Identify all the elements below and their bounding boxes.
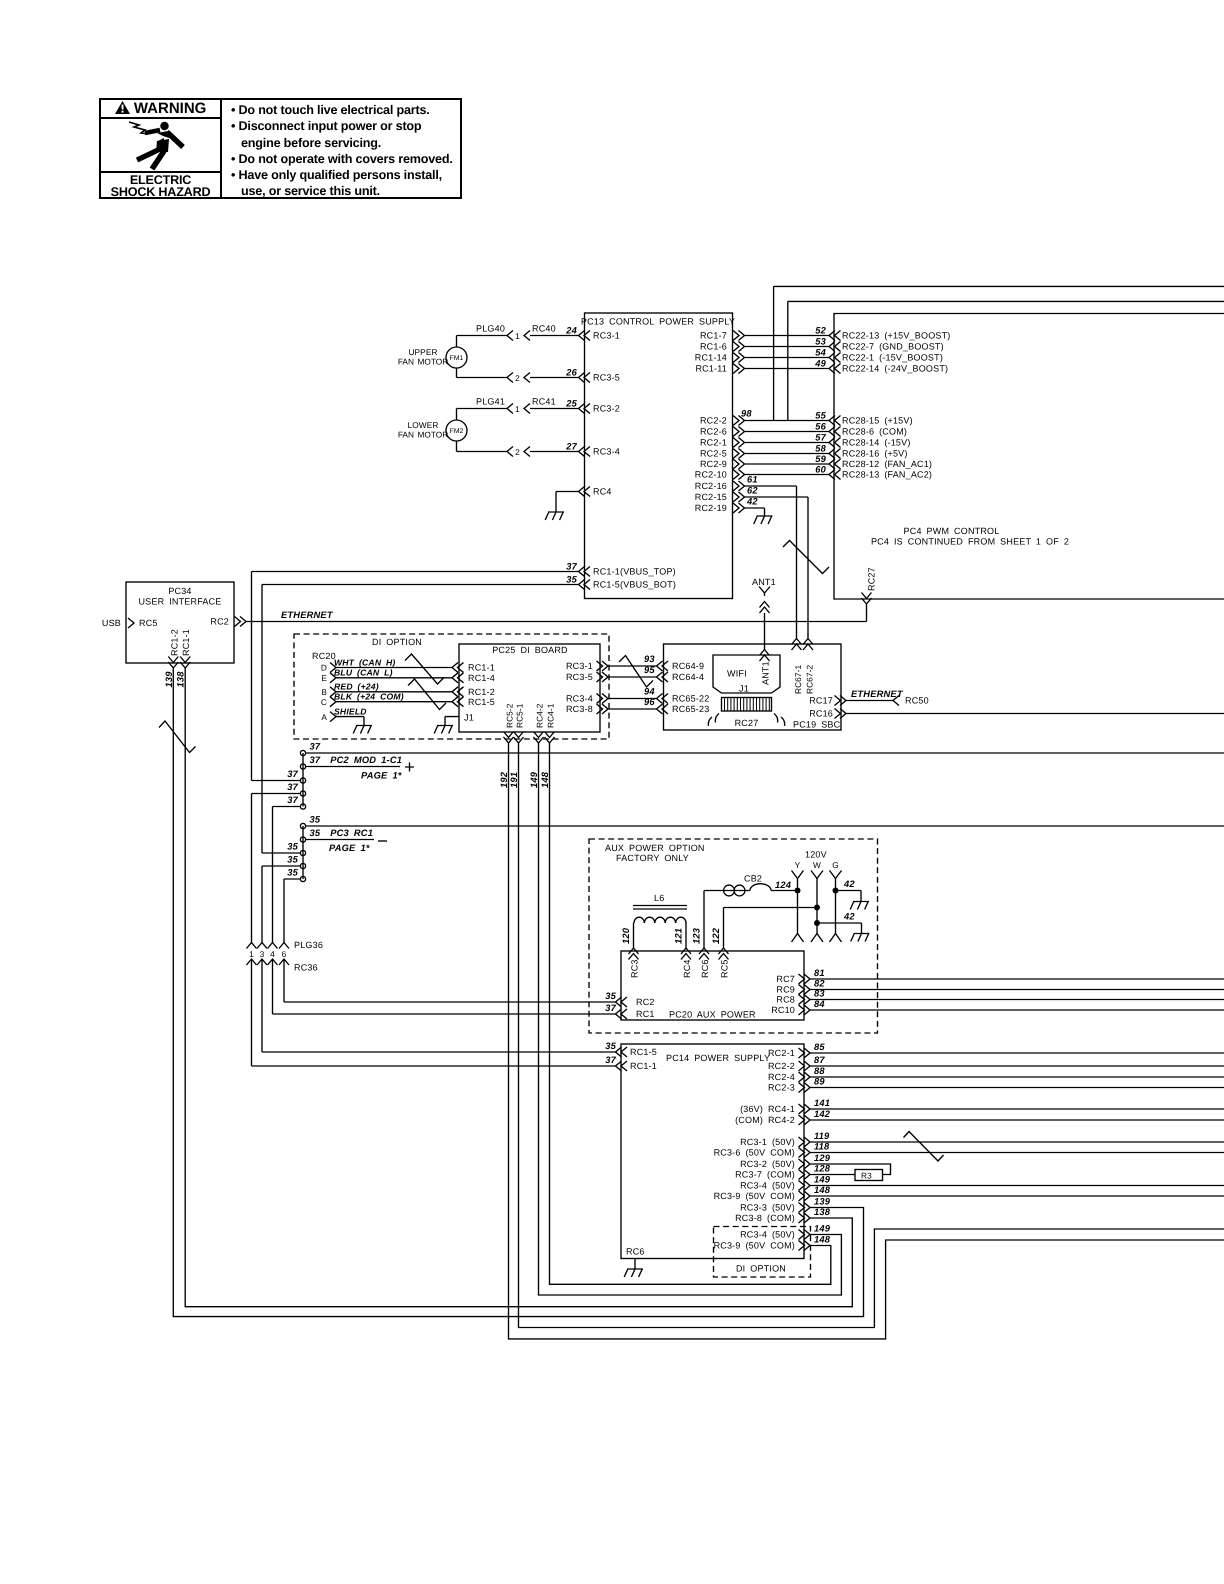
wire 58 <box>745 453 830 455</box>
svg-text:58: 58 <box>815 443 826 453</box>
svg-text:RC22-1 (-15V_BOOST): RC22-1 (-15V_BOOST) <box>842 353 943 363</box>
connector PLG36 pin 1 <box>247 943 257 949</box>
svg-text:RC50: RC50 <box>905 696 929 706</box>
svg-text:DI OPTION: DI OPTION <box>736 1264 786 1274</box>
svg-text:RC3-9 (50V COM): RC3-9 (50V COM) <box>714 1241 795 1251</box>
pin RC4-2 (PC14) 142 <box>799 1115 811 1125</box>
wire 83 off-sheet <box>810 999 1224 1001</box>
svg-text:SHIELD: SHIELD <box>334 706 367 716</box>
wire 120V W vertical <box>816 879 818 934</box>
svg-text:FM2: FM2 <box>450 428 464 435</box>
pin RC5-2 (PC25) <box>504 732 514 744</box>
svg-text:RC2-1: RC2-1 <box>700 438 727 448</box>
wire 54 <box>745 357 830 359</box>
pin RC10 (PC20) <box>799 1005 811 1015</box>
svg-text:W: W <box>813 860 821 870</box>
pin RC1-2 (PC34) <box>168 657 178 669</box>
svg-text:RC64-9: RC64-9 <box>672 661 704 671</box>
svg-text:42: 42 <box>843 879 855 889</box>
wire 148 RC4-1 to DI RC3-9 <box>550 743 831 1284</box>
svg-text:141: 141 <box>814 1098 830 1108</box>
antenna ANT1 symbol <box>759 587 770 597</box>
wire CB2 row <box>704 890 798 892</box>
svg-text:FAN MOTOR: FAN MOTOR <box>398 357 448 367</box>
svg-text:37 PC2 MOD 1-C1: 37 PC2 MOD 1-C1 <box>310 755 403 765</box>
connector J1 comb RC27 <box>722 698 772 712</box>
crossover mark 93/95 <box>619 656 653 688</box>
svg-text:BLU (CAN L): BLU (CAN L) <box>334 668 393 678</box>
wire J1 to ground <box>445 717 459 726</box>
svg-text:PC4 IS CONTINUED FROM SHEET 1: PC4 IS CONTINUED FROM SHEET 1 OF 2 <box>871 537 1069 547</box>
svg-text:PC19 SBC: PC19 SBC <box>793 720 841 730</box>
pin RC4 (PC20 top) <box>681 948 691 960</box>
pin RC2-15 (PC13) <box>733 492 745 502</box>
svg-text:L6: L6 <box>654 893 664 903</box>
pin RC3-4 (PC25) <box>597 694 609 704</box>
svg-text:35: 35 <box>287 868 298 878</box>
pin RC27 (PC4) <box>862 593 872 605</box>
pin RC5 USB (PC34) <box>128 618 134 628</box>
svg-text:RC3: RC3 <box>630 959 640 978</box>
pin RC3 (PC20 top) <box>629 948 639 960</box>
wire RC20-D <box>336 667 452 669</box>
wire RC36-3 to PC14 RC1-5 <box>262 959 616 1052</box>
pin RC50 <box>893 696 899 706</box>
svg-text:35: 35 <box>605 1041 616 1051</box>
wire RC16 off-sheet <box>846 713 1224 715</box>
svg-text:PAGE 1*: PAGE 1* <box>361 771 402 781</box>
svg-text:RC2: RC2 <box>210 617 229 627</box>
svg-text:98: 98 <box>741 409 752 419</box>
pin RC3-9 (PC14 DI) 148 <box>799 1241 811 1251</box>
warning bullet text <box>231 102 457 200</box>
wire CB2 left to RC6 <box>703 891 705 949</box>
svg-text:PC14 POWER SUPPLY: PC14 POWER SUPPLY <box>666 1053 770 1063</box>
wire 53 <box>745 346 830 348</box>
pin RC3-1 (PC13) <box>579 331 591 341</box>
wire RC36-6 to PC20 RC2 <box>284 959 616 1002</box>
connector PLG36 pin 6 <box>279 943 289 949</box>
svg-text:RC36: RC36 <box>294 963 318 973</box>
junction Y-124 <box>795 888 801 894</box>
svg-text:129: 129 <box>814 1153 831 1163</box>
connector 120V G upper <box>830 871 842 879</box>
svg-text:42: 42 <box>843 912 855 922</box>
svg-text:RC27: RC27 <box>735 718 759 728</box>
svg-text:35: 35 <box>287 855 298 865</box>
wire 35 off-sheet <box>306 825 1224 827</box>
svg-text:RC2-2: RC2-2 <box>768 1061 795 1071</box>
ground RC6 <box>624 1269 643 1278</box>
svg-text:122: 122 <box>711 927 721 944</box>
svg-text:142: 142 <box>814 1109 831 1119</box>
svg-text:2: 2 <box>515 447 520 457</box>
pin RC1-5 (PC25) <box>452 697 464 707</box>
svg-text:6: 6 <box>282 949 287 959</box>
svg-text:59: 59 <box>815 454 826 464</box>
svg-text:1: 1 <box>515 331 520 341</box>
pin RC67-2 (PC19) <box>803 639 813 651</box>
svg-text:RC28-6 (COM): RC28-6 (COM) <box>842 427 907 437</box>
wire 37 tap3 to VBUS_TOP <box>252 780 301 782</box>
pin RC28-15 (PC4) <box>829 416 841 426</box>
svg-text:RC22-7 (GND_BOOST): RC22-7 (GND_BOOST) <box>842 342 944 352</box>
junction W-42 <box>814 920 820 926</box>
wire 120V Y vertical <box>797 879 799 934</box>
wire G to ground 42a <box>836 891 862 902</box>
wire 60 <box>745 474 830 476</box>
svg-text:RED (+24): RED (+24) <box>334 682 379 692</box>
node 37 tap1 <box>300 750 305 755</box>
svg-text:RC6: RC6 <box>626 1247 645 1257</box>
svg-text:PAGE 1*: PAGE 1* <box>329 843 370 853</box>
wire FM2 pin1 row <box>457 409 579 421</box>
bus 35 tap column <box>302 826 304 879</box>
svg-text:RC5: RC5 <box>720 959 730 978</box>
crossover mark RC67 pair <box>783 541 829 574</box>
wire RC20-C <box>336 701 452 703</box>
svg-text:35: 35 <box>287 842 298 852</box>
svg-text:37: 37 <box>605 1003 616 1013</box>
svg-text:RC2-5: RC2-5 <box>700 449 727 459</box>
connector 120V W upper <box>811 871 823 879</box>
DI option boundary lower (dashed) <box>714 1227 811 1278</box>
svg-text:37: 37 <box>310 742 321 752</box>
svg-text:USER INTERFACE: USER INTERFACE <box>138 597 221 607</box>
wire 61 RC2-16 to RC67-1 <box>745 486 797 639</box>
svg-text:25: 25 <box>565 398 577 408</box>
svg-text:120V: 120V <box>805 850 827 860</box>
svg-text:149: 149 <box>529 771 539 788</box>
svg-text:138: 138 <box>176 671 186 688</box>
svg-text:RC2-6: RC2-6 <box>700 427 727 437</box>
svg-text:RC67-2: RC67-2 <box>805 665 815 694</box>
wire 85 off-sheet <box>810 1052 1224 1054</box>
plug PLG40 pin 1 <box>507 331 513 341</box>
svg-text:RC8: RC8 <box>776 995 795 1005</box>
svg-text:35: 35 <box>605 991 616 1001</box>
pin RC67-1 (PC19) <box>792 639 802 651</box>
svg-text:RC17: RC17 <box>809 696 833 706</box>
svg-text:RC9: RC9 <box>776 985 795 995</box>
svg-text:RC5: RC5 <box>139 618 158 628</box>
pin RC6 (PC20 top) <box>699 948 709 960</box>
svg-text:RC2-3: RC2-3 <box>768 1083 795 1093</box>
wire shield to ground <box>336 717 364 726</box>
pin RC28-14 (PC4) <box>829 438 841 448</box>
svg-text:191: 191 <box>509 772 519 788</box>
wire 129 to R3 <box>810 1164 891 1175</box>
svg-text:3: 3 <box>260 949 265 959</box>
svg-text:RC5-1: RC5-1 <box>514 703 524 728</box>
svg-text:RC28-16 (+5V): RC28-16 (+5V) <box>842 449 908 459</box>
svg-text:R3: R3 <box>861 1170 872 1180</box>
svg-text:G: G <box>832 860 839 870</box>
warning sign box <box>99 98 462 199</box>
svg-text:RC3-1: RC3-1 <box>593 331 620 341</box>
pin RC3-5 (PC13) <box>579 373 591 383</box>
wire 35 tap5 to PLG36-6 <box>284 879 300 943</box>
svg-text:RC1-5: RC1-5 <box>630 1047 657 1057</box>
svg-text:RC65-22: RC65-22 <box>672 694 709 704</box>
fan motor FM2 <box>446 420 467 441</box>
svg-text:J1: J1 <box>739 684 749 694</box>
svg-text:49: 49 <box>814 358 826 368</box>
pin RC3-8 (PC14) 138 <box>799 1213 811 1223</box>
plug PLG41 pin 2 <box>507 447 513 457</box>
pin RC3-4 (PC14 DI) 149 <box>799 1230 811 1240</box>
wire 192 RC5-2 <box>509 743 1224 1339</box>
pin RC3-9 (PC14) 148 <box>799 1191 811 1201</box>
svg-text:4: 4 <box>270 949 275 959</box>
wire 149 RC4-2 to DI RC3-4 <box>539 743 842 1295</box>
pin RC1-6 (PC13) <box>733 342 745 352</box>
pin RC3-4 (PC13) <box>579 447 591 457</box>
pin RC64-4 (PC19) <box>657 672 669 682</box>
IC PC25 DI board box <box>459 644 600 732</box>
svg-text:RC3-5: RC3-5 <box>593 373 620 383</box>
wire 35 PC3 RC1 stub <box>306 839 374 841</box>
module WIFI J1 <box>713 655 780 693</box>
connector RC36 pin 6 <box>279 959 289 965</box>
svg-text:RC1-1: RC1-1 <box>630 1061 657 1071</box>
svg-text:RC1-14: RC1-14 <box>695 353 727 363</box>
svg-text:(36V) RC4-1: (36V) RC4-1 <box>740 1104 795 1114</box>
svg-text:84: 84 <box>814 999 825 1009</box>
svg-text:D: D <box>321 663 327 673</box>
pin RC2-4 (PC14) 88 <box>799 1072 811 1082</box>
svg-text:27: 27 <box>565 441 577 451</box>
warning title <box>101 100 220 119</box>
plug PLG40 pin 2 <box>507 373 513 383</box>
pin RC7 (PC20) <box>799 974 811 984</box>
pin RC1-1(VBUS_TOP) (PC13) <box>579 567 591 577</box>
svg-text:RC1-5(VBUS_BOT): RC1-5(VBUS_BOT) <box>593 580 676 590</box>
svg-text:82: 82 <box>814 979 825 989</box>
svg-text:RC3-9 (50V COM): RC3-9 (50V COM) <box>714 1191 795 1201</box>
pin RC1-14 (PC13) <box>733 353 745 363</box>
svg-text:RC3-5: RC3-5 <box>566 672 593 682</box>
svg-text:RC3-6 (50V COM): RC3-6 (50V COM) <box>714 1148 795 1158</box>
node 37 tap3 <box>300 778 305 783</box>
svg-text:118: 118 <box>814 1142 830 1152</box>
svg-text:52: 52 <box>815 325 826 335</box>
wire 96 <box>608 708 657 710</box>
svg-text:2: 2 <box>515 373 520 383</box>
pin RC4-1 (PC14) 141 <box>799 1104 811 1114</box>
svg-text:148: 148 <box>814 1185 831 1195</box>
svg-text:1: 1 <box>515 404 520 414</box>
wire 89 off-sheet <box>810 1087 1224 1089</box>
pin RC5-1 (PC25) <box>514 732 524 744</box>
IC PC14 power supply box <box>621 1044 804 1259</box>
wire 81 off-sheet <box>810 978 1224 980</box>
svg-text:RC3-1: RC3-1 <box>566 661 593 671</box>
pin RC3-2 (PC13) <box>579 404 591 414</box>
svg-text:RC28-15 (+15V): RC28-15 (+15V) <box>842 416 913 426</box>
svg-text:148: 148 <box>814 1235 831 1245</box>
svg-text:ETHERNET: ETHERNET <box>281 610 334 620</box>
svg-text:WHT (CAN H): WHT (CAN H) <box>334 657 396 667</box>
svg-text:RC2-16: RC2-16 <box>695 481 727 491</box>
svg-text:RC4-1: RC4-1 <box>545 703 555 728</box>
wire 37 off-sheet <box>306 752 1224 754</box>
svg-text:RC6: RC6 <box>700 959 710 978</box>
wire 95 <box>608 676 657 678</box>
svg-text:UPPER: UPPER <box>408 347 437 357</box>
wire 37 VBUS_TOP <box>252 572 579 781</box>
wire off-sheet A <box>774 286 1224 420</box>
svg-text:RC64-4: RC64-4 <box>672 672 704 682</box>
pin RC1-1 (PC34) <box>180 657 190 669</box>
connector 120V Y lower <box>792 934 804 943</box>
pin RC1-2 (PC25) <box>452 687 464 697</box>
crossover mark 24V pair <box>408 679 446 710</box>
pin RC3-6 (PC14) 118 <box>799 1148 811 1158</box>
svg-text:RC3-8 (COM): RC3-8 (COM) <box>735 1213 795 1223</box>
svg-text:RC27: RC27 <box>867 567 877 591</box>
svg-text:USB: USB <box>102 618 121 628</box>
plug PLG41 pin 1 <box>507 404 513 414</box>
pin RC2-16 (PC13) <box>733 481 745 491</box>
svg-text:AUX POWER OPTION: AUX POWER OPTION <box>605 843 705 853</box>
svg-text:RC3-8: RC3-8 <box>566 704 593 714</box>
pin RC3-2 (PC14) 129 <box>799 1159 811 1169</box>
node 37 tap5 <box>300 804 305 809</box>
wire off-sheet B <box>788 301 1224 420</box>
svg-text:RC16: RC16 <box>809 709 833 719</box>
svg-text:RC65-23: RC65-23 <box>672 704 709 714</box>
svg-text:PC4 PWM CONTROL: PC4 PWM CONTROL <box>904 526 1000 536</box>
IC PC20 aux power box <box>621 951 804 1020</box>
wire 149 off-sheet <box>810 1185 1224 1187</box>
pin RC3-5 (PC25) <box>597 672 609 682</box>
pin RC4-1 (PC25) <box>545 732 555 744</box>
wire 82 off-sheet <box>810 989 1224 991</box>
pin RC1-7 (PC13) <box>733 331 745 341</box>
wire 94 <box>608 698 657 700</box>
pin RC1-11 (PC13) <box>733 364 745 374</box>
pin RC1-1 (PC14) <box>616 1061 628 1071</box>
svg-text:37: 37 <box>287 769 298 779</box>
svg-text:Y: Y <box>795 860 801 870</box>
svg-text:123: 123 <box>692 927 702 944</box>
wire FM1 pin1 row <box>457 336 579 348</box>
svg-text:94: 94 <box>644 687 655 697</box>
wire RC20-B <box>336 691 452 693</box>
svg-text:J1: J1 <box>464 713 474 723</box>
pin RC3-3 (PC14) 139 <box>799 1203 811 1213</box>
svg-text:54: 54 <box>815 347 826 357</box>
svg-text:RC28-13 (FAN_AC2): RC28-13 (FAN_AC2) <box>842 470 932 480</box>
svg-text:PLG40: PLG40 <box>476 324 505 334</box>
wire 52 <box>745 335 830 337</box>
pin RC3-8 (PC25) <box>597 704 609 714</box>
svg-text:RC28-14 (-15V): RC28-14 (-15V) <box>842 438 911 448</box>
connector 120V W lower <box>811 934 823 943</box>
svg-text:1: 1 <box>249 949 254 959</box>
wire 87 off-sheet <box>810 1065 1224 1067</box>
svg-text:60: 60 <box>815 464 826 474</box>
wire 141 off-sheet <box>810 1108 1224 1110</box>
svg-text:E: E <box>321 673 327 683</box>
wire 88 off-sheet <box>810 1076 1224 1078</box>
svg-text:RC2-10: RC2-10 <box>695 470 727 480</box>
pin RC1 (PC20) <box>616 1009 628 1019</box>
pin RC2 (PC20) <box>616 997 628 1007</box>
svg-text:ANT1: ANT1 <box>761 661 771 685</box>
svg-text:RC2-15: RC2-15 <box>695 492 727 502</box>
ground RC4 <box>545 512 564 521</box>
svg-text:RC1-2: RC1-2 <box>468 687 495 697</box>
wire 138 RC1-1 to RC3-8 <box>185 668 852 1307</box>
crossover mark 119/118 <box>904 1132 944 1162</box>
svg-text:124: 124 <box>775 880 792 890</box>
pin RC22-1 (PC4) <box>829 353 841 363</box>
wire 49 <box>745 368 830 370</box>
wire 62 RC2-15 to RC67-2 <box>745 497 809 639</box>
pin RC8 (PC20) <box>799 995 811 1005</box>
ground 42b <box>851 933 870 942</box>
pin RC2-1 (PC14) 85 <box>799 1048 811 1058</box>
connector RC36 pin 4 <box>268 959 278 965</box>
pin RC3-4 (PC14) 149 <box>799 1181 811 1191</box>
pin RC3-7 (PC14) 128 <box>799 1170 811 1180</box>
pin RC2-2 (PC13) <box>733 416 745 426</box>
pin RC65-23 (PC19) <box>657 704 669 714</box>
svg-text:RC3-7 (COM): RC3-7 (COM) <box>735 1170 795 1180</box>
wire 119 off-sheet <box>810 1141 1224 1143</box>
pin RC22-14 (PC4) <box>829 364 841 374</box>
wire 128 to R3 <box>810 1174 855 1176</box>
svg-text:FM1: FM1 <box>450 355 464 362</box>
svg-text:RC22-13 (+15V_BOOST): RC22-13 (+15V_BOOST) <box>842 331 951 341</box>
svg-text:42: 42 <box>746 497 758 507</box>
svg-text:148: 148 <box>540 771 550 788</box>
pin RC17 (PC19) <box>835 696 847 706</box>
wire 56 <box>745 431 830 433</box>
wire 59 <box>745 463 830 465</box>
svg-text:RC1-4: RC1-4 <box>468 673 495 683</box>
wire ANT1 to WIFI <box>764 613 766 650</box>
connector RC36 pin 1 <box>247 959 257 965</box>
node 35 tap4 <box>300 863 305 868</box>
svg-text:87: 87 <box>814 1055 825 1065</box>
node 37 tap4 <box>300 791 305 796</box>
polarity + mark <box>405 763 414 772</box>
wire 37 PC2 MOD stub <box>306 766 400 768</box>
svg-text:RC3-3 (50V): RC3-3 (50V) <box>740 1203 795 1213</box>
pin RC9 (PC20) <box>799 985 811 995</box>
pin RC2-2 (PC14) 87 <box>799 1061 811 1071</box>
svg-text:PLG36: PLG36 <box>294 940 323 950</box>
svg-text:RC1: RC1 <box>636 1009 655 1019</box>
pin RC2-19 (PC13) <box>733 503 745 513</box>
pin RC1-5(VBUS_BOT) (PC13) <box>579 580 591 590</box>
svg-text:RC10: RC10 <box>771 1005 795 1015</box>
svg-text:RC2-1: RC2-1 <box>768 1048 795 1058</box>
svg-text:93: 93 <box>644 654 655 664</box>
connector PLG36 pin 4 <box>268 943 278 949</box>
svg-text:RC4: RC4 <box>682 959 692 978</box>
wire 148 off-sheet <box>810 1195 1224 1197</box>
svg-text:RC20: RC20 <box>312 651 336 661</box>
connector 120V Y upper <box>792 871 804 879</box>
svg-text:RC2-19: RC2-19 <box>695 503 727 513</box>
wire 118 off-sheet <box>810 1152 1224 1154</box>
svg-text:53: 53 <box>815 336 826 346</box>
svg-text:RC2-9: RC2-9 <box>700 459 727 469</box>
